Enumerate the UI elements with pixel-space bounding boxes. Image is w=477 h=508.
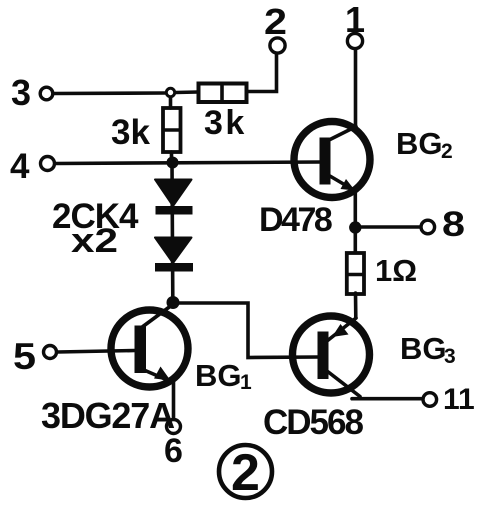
svg-text:11: 11	[443, 383, 475, 416]
svg-text:2: 2	[231, 444, 260, 502]
svg-text:2: 2	[264, 1, 287, 42]
svg-text:BG: BG	[396, 126, 443, 161]
svg-text:8: 8	[442, 205, 465, 244]
svg-text:1: 1	[240, 371, 252, 394]
svg-text:3: 3	[444, 345, 456, 368]
svg-text:1: 1	[345, 0, 365, 40]
svg-text:1Ω: 1Ω	[375, 253, 417, 288]
svg-text:3: 3	[11, 72, 31, 113]
svg-text:4: 4	[10, 147, 30, 186]
svg-text:BG: BG	[400, 331, 447, 366]
svg-text:3k: 3k	[204, 104, 247, 142]
svg-text:2: 2	[441, 140, 453, 163]
svg-text:6: 6	[164, 432, 183, 470]
svg-text:3DG27A: 3DG27A	[41, 395, 175, 436]
svg-text:CD568: CD568	[263, 403, 363, 442]
svg-text:D478: D478	[259, 201, 332, 239]
svg-text:BG: BG	[195, 358, 242, 393]
svg-text:3k: 3k	[111, 113, 150, 152]
svg-text:x2: x2	[71, 222, 118, 260]
svg-text:5: 5	[13, 336, 36, 377]
